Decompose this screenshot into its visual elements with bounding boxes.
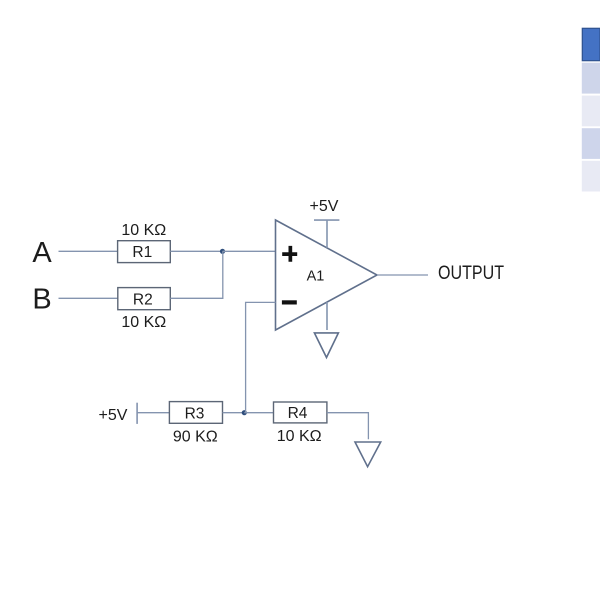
svg-text:10 KΩ: 10 KΩ: [121, 314, 166, 331]
svg-text:+5V: +5V: [310, 198, 339, 215]
wire node N1 to op-amp + input: [223, 250, 276, 252]
output wire: [377, 274, 428, 276]
wire node N2 up to op-amp − input: [246, 302, 276, 412]
sidebar thumbnail 5: [582, 161, 600, 192]
svg-text:+5V: +5V: [99, 407, 128, 424]
resistor R1: [118, 241, 171, 263]
sidebar thumbnail 2: [582, 63, 600, 94]
svg-text:B: B: [32, 284, 51, 316]
svg-text:A1: A1: [307, 268, 325, 284]
power terminal bar (R3): [136, 403, 138, 424]
node N2 junction dot: [242, 410, 247, 415]
resistor R2: [118, 288, 171, 310]
wire B to R2: [59, 297, 118, 299]
resistor R4: [274, 402, 327, 423]
wire power bar to op-amp: [326, 220, 328, 248]
sidebar thumbnail 4: [582, 128, 600, 159]
svg-text:R1: R1: [132, 244, 152, 261]
ground (op-amp): [314, 333, 338, 358]
sidebar thumbnail 3: [582, 96, 600, 127]
resistor R3: [169, 402, 222, 424]
svg-text:R4: R4: [288, 405, 308, 422]
svg-text:10 KΩ: 10 KΩ: [121, 222, 166, 239]
wire R3 to node N2: [223, 412, 245, 414]
svg-text:A: A: [32, 237, 52, 269]
wire R2 to node N1: [170, 251, 223, 298]
node N1 junction dot: [220, 249, 225, 254]
power rail bar (op-amp): [314, 219, 339, 221]
svg-text:90 KΩ: 90 KΩ: [173, 428, 218, 445]
sidebar thumbnail 1 (selected, blue): [582, 28, 600, 60]
svg-text:R2: R2: [133, 291, 153, 308]
wire A to R1: [59, 250, 118, 252]
svg-text:10 KΩ: 10 KΩ: [277, 428, 322, 445]
wire op-amp to ground: [326, 302, 328, 330]
wire R4 to ground: [327, 413, 369, 440]
svg-text:OUTPUT: OUTPUT: [438, 263, 504, 284]
wire node N2 to R4: [244, 412, 273, 414]
op-amp A1: [276, 220, 378, 330]
wire +5V to R3: [137, 412, 169, 414]
wire R1 to node N1: [170, 250, 222, 252]
ground (R4): [355, 442, 381, 467]
svg-text:R3: R3: [185, 405, 205, 422]
